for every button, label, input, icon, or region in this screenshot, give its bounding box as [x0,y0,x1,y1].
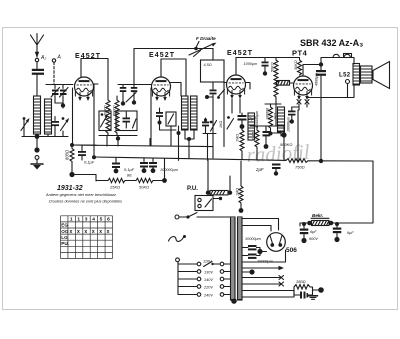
svg-text:A: A [57,55,62,61]
HT bus right [308,160,373,162]
ground [31,159,43,169]
junction ball [162,178,167,183]
junction ball [70,143,74,147]
table x marks [70,229,110,235]
svg-text:L52: L52 [339,73,351,79]
decoupling capacitor C11 [140,158,148,173]
filter cap 6uF [333,223,354,242]
padder capacitor [51,117,59,132]
wire stage4 down [297,110,299,161]
capacitor C6 [131,85,138,105]
junction ball [92,155,96,159]
capacitor 2uF [238,113,257,129]
wire coil to ground node [37,134,48,148]
svg-text:506: 506 [286,247,297,254]
svg-text:0,1μF: 0,1μF [84,160,95,165]
tube U3 E452T [227,75,246,99]
resistor 1M vertical [235,161,243,209]
svg-text:4,5Ω: 4,5Ω [204,63,212,67]
svg-text:500KΩ: 500KΩ [280,142,292,147]
svg-text:OG: OG [61,229,69,234]
wire trimmers to junction [55,96,63,109]
wire tube U3 sides [225,83,251,90]
capacitor bus bypass [255,164,281,176]
capacitor box stage1 [116,111,137,131]
resistor coupling horizontal [277,81,294,86]
pointer arrow F Draaite [197,42,200,47]
junction ball [116,136,120,140]
junction ball [187,137,191,141]
wire node to caps bank [72,175,96,182]
wire terminal [347,84,349,98]
speaker coil [353,64,360,86]
trimmer capacitor C1 [51,88,60,98]
choke coil L5 [274,107,285,132]
selector contacts left column [197,262,201,266]
IF resistor R3 vertical [112,96,119,136]
resistor 50K horizontal [136,178,153,189]
tube U1 E452T [75,77,94,101]
svg-text:LG: LG [61,235,68,240]
svg-text:50KΩ: 50KΩ [139,185,149,190]
capacitor C8 [262,58,269,76]
filter cap 6uF 600V [300,223,319,243]
coil L4 [191,96,198,130]
power switch [175,213,231,220]
wire choke bottom [265,104,281,136]
svg-text:1931-32: 1931-32 [57,185,83,192]
switch arrow gang [217,90,224,99]
svg-text:x: x [107,229,110,235]
junction ball [281,132,286,137]
HT bus [94,157,286,160]
wire tap [242,271,252,273]
coil L2 [45,99,52,134]
gang capacitor arrow [189,43,217,57]
wire U3 pins down [232,99,240,113]
grid leak box stage2 [166,112,176,126]
junction ball [61,103,65,107]
svg-text:EG: EG [61,223,68,228]
wire rect loop [242,250,286,262]
coil table grid [61,216,113,259]
svg-text:E452T: E452T [227,50,253,57]
wire gang right drop [219,82,224,147]
svg-text:1KΩ: 1KΩ [274,113,278,120]
antenna [31,34,44,58]
wire stage1 bottom [99,136,137,147]
gang box [201,60,225,82]
junction ball [335,222,339,226]
wire screen drop [178,126,180,160]
wire terminal A down (dashed) [53,62,55,84]
wire antenna to cap [36,62,38,69]
speaker terminal [346,80,350,84]
decoupling capacitor C12 [149,158,157,173]
resistor 100000 vertical [266,104,273,133]
wire cathode rail [72,144,96,146]
svg-text:6μF: 6μF [310,230,317,234]
fuse 110V [203,260,220,267]
wire tube U1 sides [94,83,99,85]
heater wire x2 [242,282,284,286]
antenna terminal A [52,59,55,62]
junction ball gang [194,47,198,51]
svg-text:4: 4 [92,217,95,223]
wire ball up [164,158,166,180]
svg-text:A₂: A₂ [40,55,46,61]
switch box stage1 [99,111,111,131]
band switch arm right [61,117,70,130]
output transformer bumps [333,54,352,58]
trimmer capacitor C2 [60,88,69,98]
svg-text:600V: 600V [309,237,318,241]
svg-text:100000μm: 100000μm [160,168,178,172]
switch arrow stage3 [227,116,234,129]
junction ball [239,208,244,213]
PU switch dot [219,197,222,200]
svg-text:P.U.: P.U. [187,186,198,192]
svg-text:PT4: PT4 [292,49,308,58]
svg-text:x: x [70,229,73,235]
junction ball [269,132,273,136]
antenna terminal A2 [35,58,38,61]
svg-text:10000μm: 10000μm [287,117,291,132]
svg-text:5: 5 [100,217,103,223]
wire coils to bus [185,130,194,158]
svg-text:Bekr.: Bekr. [312,213,323,218]
svg-text:1MΩ: 1MΩ [235,188,239,196]
junction ball [177,131,181,135]
rectifier plate wire 2 [242,226,271,232]
resistor PU horizontal [210,191,228,195]
resistor grid PT4 [294,58,302,76]
wire PU to bus [208,159,230,199]
capacitor antenna series [32,69,44,75]
capacitor stage2 [156,108,163,125]
junction ball heater [249,269,254,274]
svg-text:30KΩ: 30KΩ [294,60,298,70]
svg-text:1KΩ: 1KΩ [219,121,223,128]
junction ball field [318,287,324,293]
resistor 750ohm inline [286,159,308,163]
wire cap to coil [36,75,38,97]
svg-text:x: x [77,229,80,235]
power transformer secondary winding [238,217,243,300]
tube U4 pin cross marks [297,100,309,105]
wire resistor chain [96,180,164,182]
capacitor 4000um [314,67,326,99]
svg-text:0,1μF: 0,1μF [124,167,135,172]
capacitor stage4 [288,107,298,124]
wire U1 right side down [93,84,95,146]
wire tube U2 sides [142,83,181,97]
speaker cone [373,62,390,89]
wire top connect [250,125,284,127]
rectifier tube 506 [267,233,286,252]
decoupling capacitor bank C10 [112,157,120,173]
svg-text:1MΩ: 1MΩ [236,134,240,142]
wire mixer top [118,84,142,86]
speaker magnet [361,66,373,83]
table row labels [61,223,69,246]
choke winding bar [248,111,259,140]
junction ball plate [319,62,323,66]
wire ball [283,126,285,161]
svg-text:30000: 30000 [103,105,107,116]
coil L1 antenna [34,96,41,134]
svg-text:6: 6 [107,217,110,223]
wire U2 left side down [150,88,152,146]
table header digits [70,217,110,223]
resistor 2M vertical [251,126,259,160]
resistor 380 [294,285,313,290]
svg-text:10000μm: 10000μm [245,237,261,241]
svg-text:380Ω: 380Ω [296,279,306,284]
wire switch box [22,120,68,137]
junction balls PU [206,191,210,195]
capacitor C9 [263,126,271,149]
wire stage2 bottom [160,123,177,147]
switch arrow gang 2 [210,121,217,132]
svg-text:6μF: 6μF [347,231,354,235]
capacitor C5 [120,85,127,106]
wire top gang line [134,48,213,50]
wire to ball [313,289,320,291]
svg-text:140V: 140V [204,278,213,282]
svg-text:PU.: PU. [61,241,69,246]
trimmer arrow [126,93,136,103]
svg-text:25KΩ: 25KΩ [109,185,120,190]
svg-text:x: x [92,229,95,235]
resistor 25K horizontal [108,178,125,189]
capacitor gang lower 2 [202,118,209,134]
wire tube U1 top [81,59,108,97]
wire bus left verticals [72,139,213,158]
svg-text:3: 3 [85,217,88,223]
heater wire x1 [242,276,284,280]
junction ball [302,222,306,226]
power transformer primary winding [231,217,236,300]
mains terminal [176,258,180,262]
junction ball [34,147,39,152]
svg-text:100000μm: 100000μm [255,111,259,128]
wire tube U3 top [236,58,300,76]
wire output loop [308,85,354,98]
smoothing resistor [312,221,330,226]
ground right [309,296,318,300]
wire to field resistor [242,291,294,298]
svg-text:240V: 240V [203,294,213,298]
wire B+ line [300,161,373,226]
junction ball [69,172,74,177]
svg-text:Andere gegevens niet meer besc: Andere gegevens niet meer beschikbaar [45,192,117,197]
heater wire arrow [242,266,284,270]
svg-text:220V: 220V [203,286,213,290]
wire tube U2 top [161,59,186,96]
svg-text:750Ω: 750Ω [295,165,305,170]
selector contacts right column [220,262,224,266]
svg-text:800Ω: 800Ω [65,149,70,160]
wire trimmer top [46,85,73,89]
hum cap [294,287,313,299]
junction ball [319,159,323,163]
wire U1 left side down [72,88,74,145]
svg-text:radiofil: radiofil [246,140,310,167]
mains selector vertical [178,262,197,295]
capacitor gang lower [205,90,217,100]
tube U2 E452T [152,77,171,101]
terminal circle [35,156,39,160]
svg-text:1: 1 [77,217,80,223]
wire gang cluster 2 [203,134,216,161]
PU input box [195,196,213,211]
svg-text:E452T: E452T [149,52,175,59]
band switch arm left [21,117,30,130]
svg-text:x: x [84,229,87,235]
svg-text:SBR 432 Az-A₃: SBR 432 Az-A₃ [300,38,363,48]
svg-text:1: 1 [70,217,73,223]
filter capacitor bank [242,245,263,259]
wire PT4 plate top [303,58,354,77]
pilot squiggle [169,237,185,242]
resistor 50K vertical [270,58,278,127]
svg-text:1000μm: 1000μm [244,62,258,66]
IF resistor R2 vertical [103,96,110,136]
resistor 800ohm [65,147,75,175]
resistor 1M stage3 [236,127,244,160]
wire U4 pins [299,104,307,110]
wire gang down [212,49,214,159]
junction ball bottom coil [35,134,40,139]
tuning line vertical [133,49,135,85]
svg-text:F Draaite: F Draaite [196,36,216,41]
coil L3 [182,96,189,130]
svg-text:130V: 130V [204,271,213,275]
svg-text:2μF: 2μF [255,167,264,172]
svg-text:D'autres données ne sont plus: D'autres données ne sont plus disponible… [49,199,122,204]
svg-text:8E: 8E [127,173,132,178]
capacitor 0.1uF [78,145,95,165]
tube U4 PT4 [294,76,313,100]
wires selector to transformer [224,264,231,295]
junction ball transformer bottom [231,298,237,304]
junction balls smoothing [307,221,312,226]
rectifier plate wire 1 [242,219,279,231]
wire B+ down [320,99,322,162]
svg-text:x: x [99,229,102,235]
